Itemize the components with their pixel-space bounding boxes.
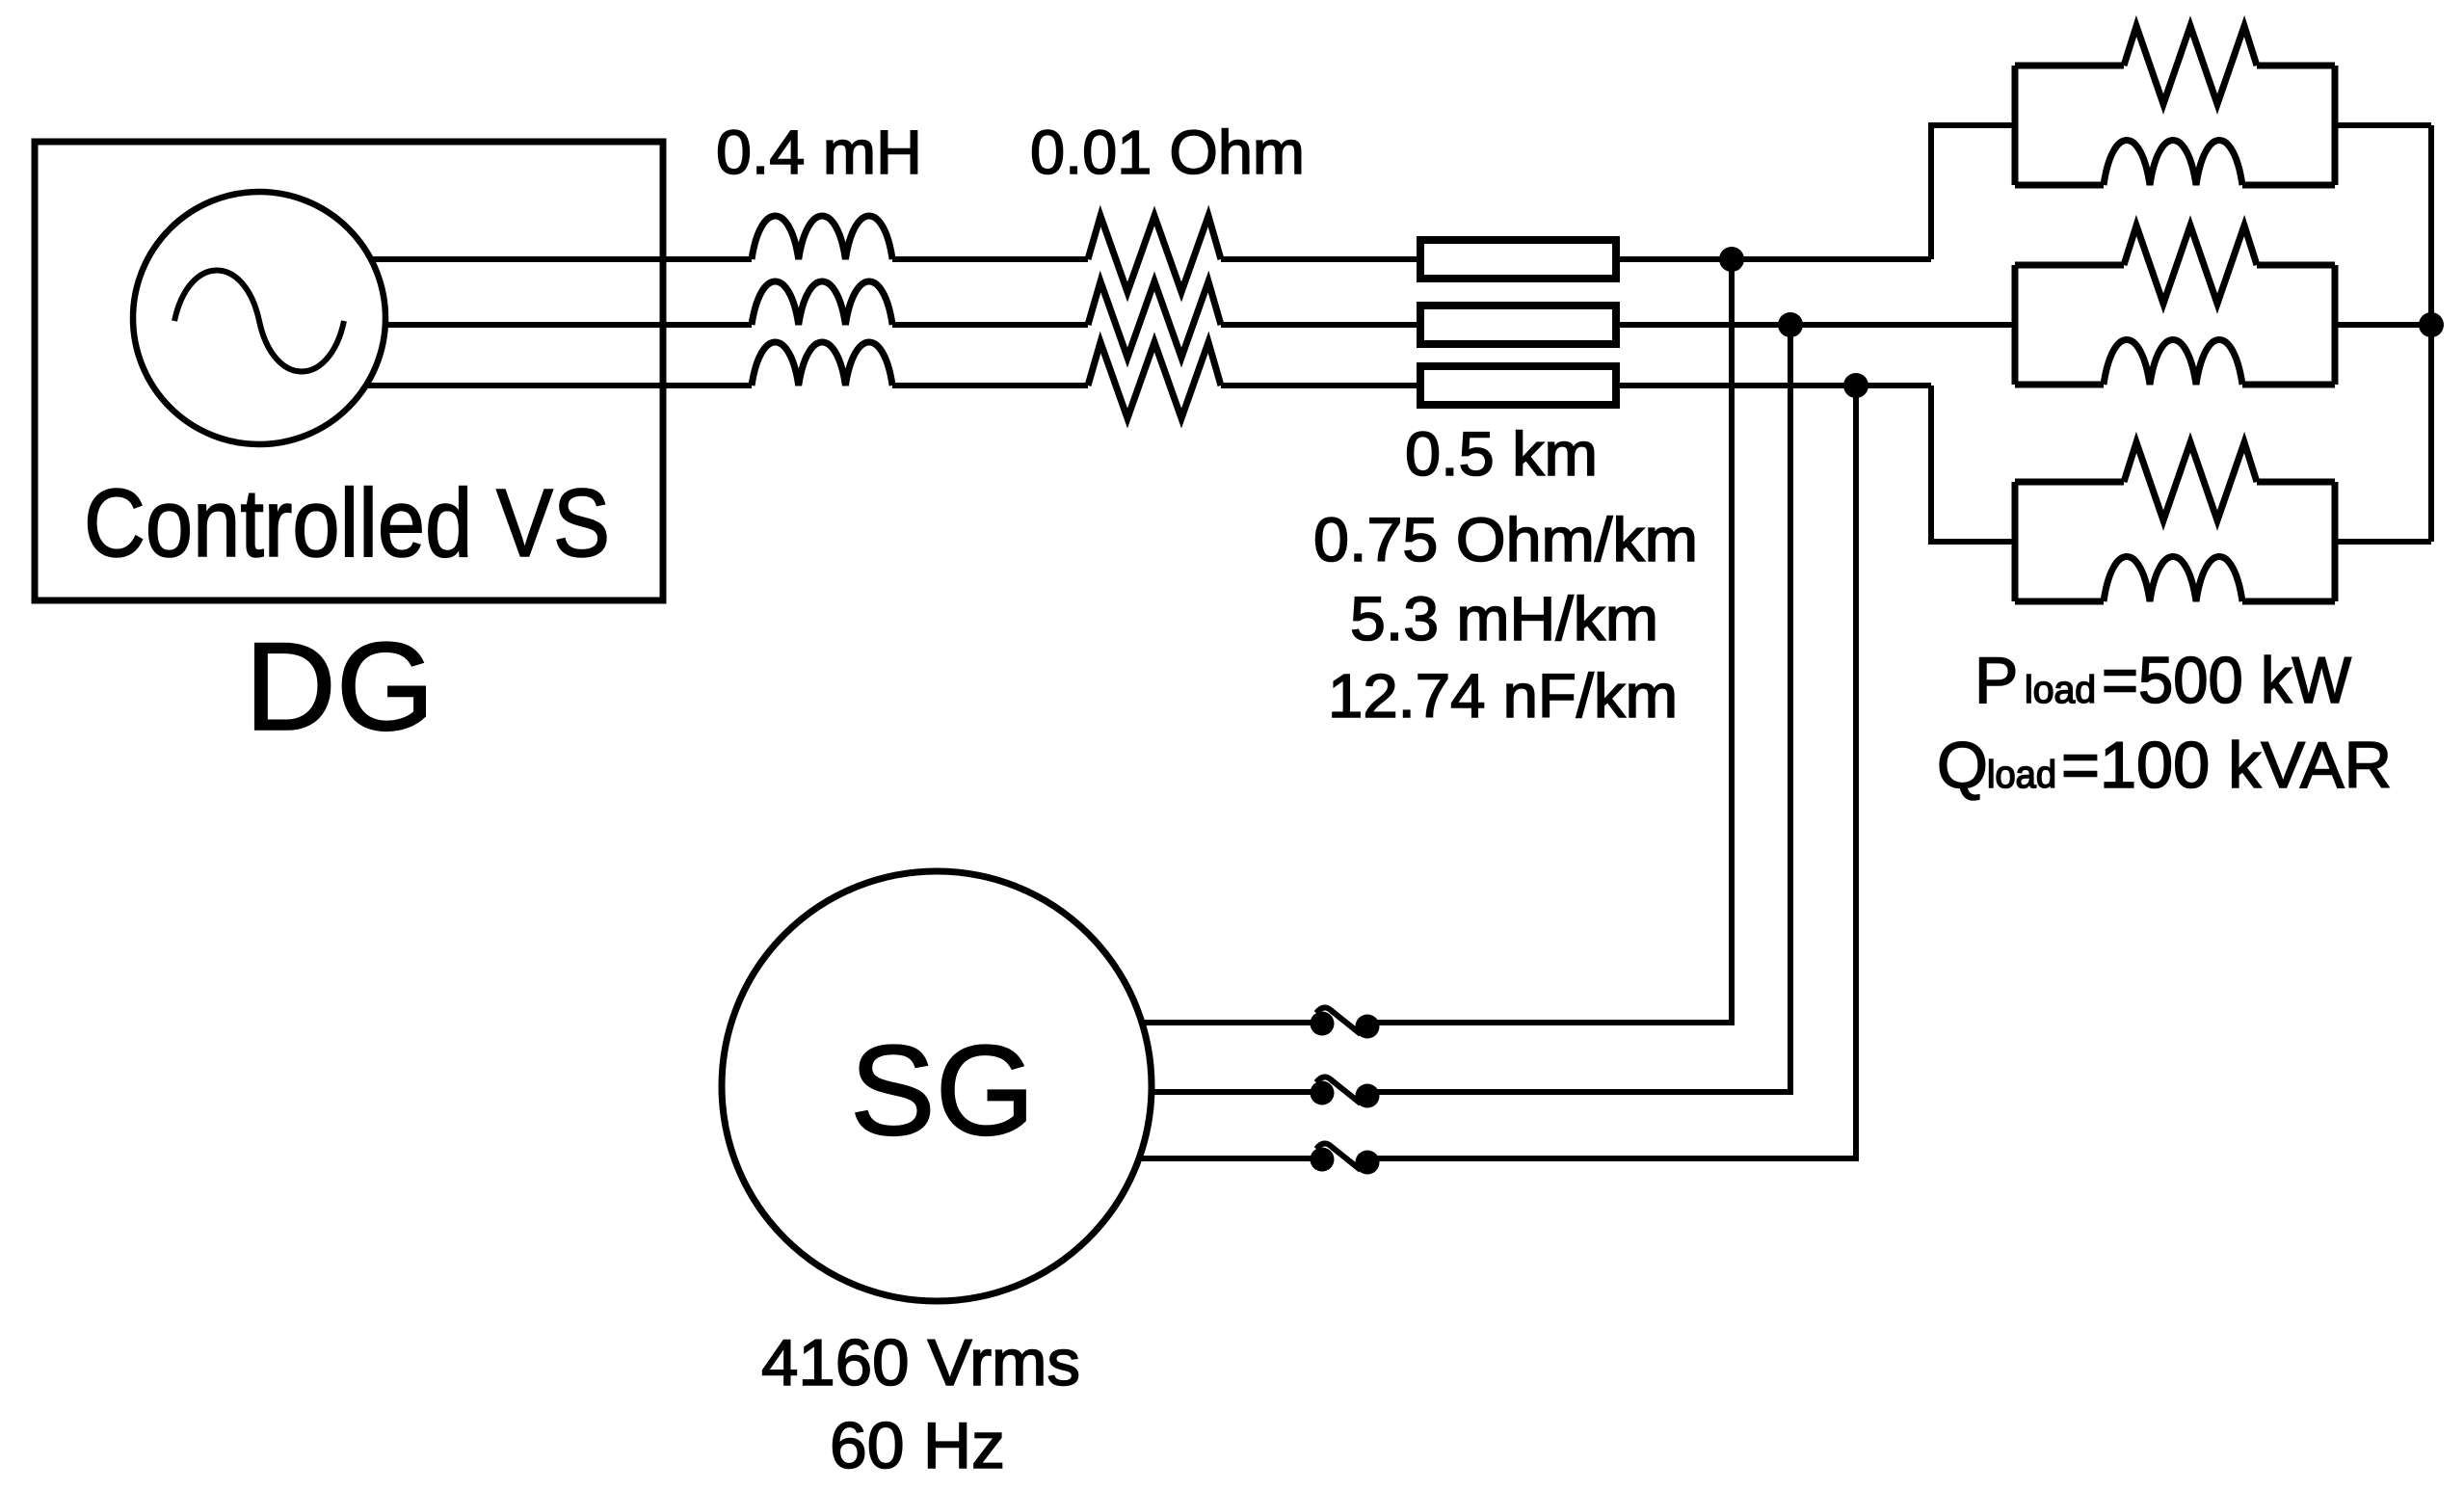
switch SW-A right contact dot: [1356, 1015, 1380, 1039]
svg-text:0.75 Ohm/km: 0.75 Ohm/km: [1313, 505, 1698, 574]
SG wire A to switch: [1142, 1020, 1312, 1025]
resistor RB 0.01 Ohm: [1088, 281, 1221, 358]
wire phase C: inductor to resistor: [892, 383, 1088, 388]
wire phase C: dropper to load branch 3: [1931, 386, 2015, 542]
svg-text:12.74 nF/km: 12.74 nF/km: [1328, 661, 1678, 731]
svg-text:Controlled VS: Controlled VS: [84, 469, 610, 577]
wire phase A: riser to load branch 1: [1931, 125, 2015, 259]
inductor LB 0.4 mH: [752, 281, 892, 325]
switch SW-A blade: [1316, 1007, 1361, 1034]
node C junction dot: [1843, 373, 1868, 398]
wire phase B: block to load branch 2: [1620, 322, 2015, 328]
svg-text:0.5 km: 0.5 km: [1405, 419, 1598, 489]
switch SW-B right contact dot: [1356, 1084, 1380, 1108]
load resistor R2 (branch 2 top): [2124, 226, 2257, 304]
svg-text:60 Hz: 60 Hz: [830, 1409, 1005, 1482]
svg-text:0.4 mH: 0.4 mH: [716, 118, 922, 187]
load branch 2 right stub: [2335, 322, 2431, 328]
SG wire B to node B riser: [1377, 325, 1790, 1092]
switch SW-B left contact dot: [1311, 1081, 1335, 1105]
svg-text:DG: DG: [245, 616, 435, 757]
wire phase A: block to corner: [1620, 256, 1931, 262]
svg-text:5.3 mH/km: 5.3 mH/km: [1350, 584, 1658, 653]
bus junction node: [2419, 312, 2444, 337]
load branch 1 frame: [2015, 66, 2335, 185]
load inductor L2 (branch 2 bottom): [2104, 340, 2242, 386]
inductor LA 0.4 mH: [752, 216, 892, 259]
wire phase C: source to inductor: [366, 383, 752, 388]
wire phase B: resistor to line block: [1221, 322, 1417, 328]
load resistor R1 (branch 1 top): [2124, 26, 2257, 104]
inductor LC 0.4 mH: [752, 342, 892, 386]
wire phase C: resistor to line block: [1221, 383, 1417, 388]
load branch 1 right stub: [2335, 122, 2431, 128]
load branch 2 frame: [2015, 265, 2335, 385]
AC source circle U1: [133, 192, 385, 444]
load right bus: [2428, 125, 2434, 542]
wire phase A: resistor to line block: [1221, 256, 1417, 262]
transmission line block TL-C: [1420, 366, 1616, 405]
switch SW-C left contact dot: [1311, 1148, 1335, 1172]
switch SW-C right contact dot: [1356, 1151, 1380, 1175]
wire phase C: block to corner: [1620, 383, 1931, 388]
svg-text:0.01 Ohm: 0.01 Ohm: [1030, 118, 1305, 187]
svg-text:=500 kW: =500 kW: [2102, 644, 2351, 717]
load inductor L3 (branch 3 bottom): [2104, 557, 2242, 602]
resistor RC 0.01 Ohm: [1088, 342, 1221, 418]
svg-text:4160 Vrms: 4160 Vrms: [761, 1326, 1080, 1399]
svg-text:Q: Q: [1937, 729, 1988, 802]
SG wire A to node A riser: [1377, 259, 1732, 1023]
svg-text:load: load: [1987, 754, 2056, 796]
node A junction dot: [1719, 247, 1744, 272]
svg-text:=100 kVAR: =100 kVAR: [2061, 729, 2392, 802]
load inductor L1 (branch 1 bottom): [2104, 141, 2242, 186]
SG wire B to switch: [1152, 1089, 1312, 1095]
wire phase A: inductor to resistor: [892, 256, 1088, 262]
svg-text:P: P: [1974, 644, 2018, 717]
switch SW-A left contact dot: [1311, 1012, 1335, 1036]
resistor RA 0.01 Ohm: [1088, 216, 1221, 292]
transmission line block TL-B: [1420, 306, 1616, 344]
wire phase A: source to inductor: [370, 256, 752, 262]
load branch 3 right stub: [2335, 539, 2431, 545]
DG source box: [35, 142, 663, 600]
switch SW-B blade: [1316, 1077, 1361, 1104]
wire phase B: inductor to resistor: [892, 322, 1088, 328]
svg-text:SG: SG: [850, 1020, 1035, 1162]
sine wave symbol: [174, 271, 344, 372]
svg-text:load: load: [2025, 669, 2096, 711]
SG generator circle: [722, 871, 1152, 1301]
load branch 3 frame: [2015, 482, 2335, 601]
SG wire C to node C riser: [1377, 386, 1856, 1158]
switch SW-C blade: [1316, 1143, 1361, 1170]
wire phase B: source to inductor: [384, 322, 752, 328]
load resistor R3 (branch 3 top): [2124, 442, 2257, 520]
SG wire C to switch: [1139, 1156, 1312, 1161]
transmission line block TL-A: [1420, 240, 1616, 279]
node B junction dot: [1778, 312, 1803, 337]
